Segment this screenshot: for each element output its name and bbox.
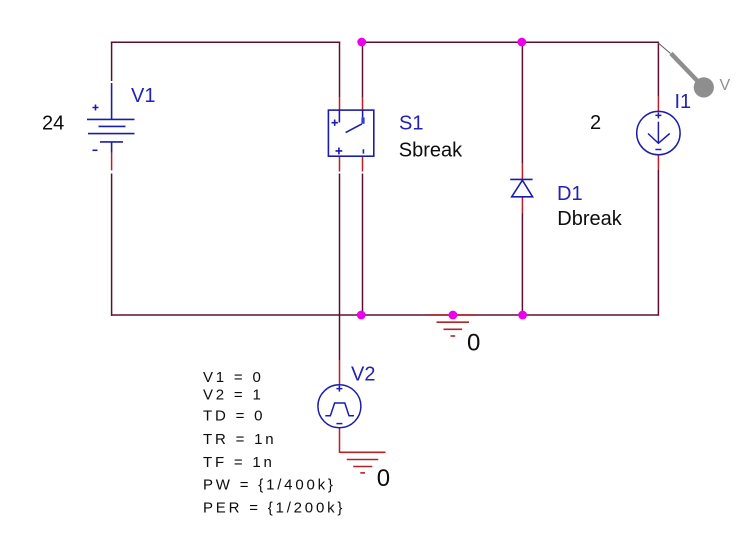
current source I1 — [637, 111, 680, 154]
wire S1 left branch upper (maroon part) — [339, 42, 341, 97]
svg-text:0: 0 — [467, 329, 480, 356]
svg-text:S1: S1 — [399, 112, 423, 134]
svg-text:TD = 0: TD = 0 — [203, 408, 265, 425]
svg-text:24: 24 — [42, 113, 64, 135]
wire V1 bottom vertical — [111, 174, 113, 316]
wire I1 branch lower (maroon) — [657, 170, 659, 316]
diode D1 — [510, 179, 532, 196]
wire I1 bottom pin stub (red) — [657, 155, 659, 170]
switch S1 — [328, 110, 373, 156]
wire D1 branch upper (maroon) — [521, 42, 523, 163]
svg-text:TR = 1n: TR = 1n — [203, 431, 276, 448]
wire I1 top pin stub (red) — [657, 96, 659, 111]
voltage probe marker — [658, 43, 714, 98]
wire V2 top pin stub (red) — [339, 360, 341, 385]
svg-text:V1 = 0: V1 = 0 — [203, 369, 264, 386]
svg-text:Dbreak: Dbreak — [557, 208, 622, 230]
svg-text:V1: V1 — [131, 85, 155, 107]
ground 0 (below V2) — [340, 452, 386, 473]
svg-text:I1: I1 — [675, 91, 692, 113]
svg-text:Sbreak: Sbreak — [399, 140, 463, 162]
wire S1 left lower pin stub (red) — [339, 156, 341, 171]
junction dot bottom rail at D1 branch — [518, 311, 527, 320]
switch S1 contact blob — [361, 117, 364, 123]
junction dot top rail at D1 branch — [517, 38, 526, 47]
V2 parameter list — [203, 369, 345, 517]
svg-text:D1: D1 — [557, 183, 583, 205]
wire V1 bottom pin stub (red) — [111, 153, 113, 171]
pulse source V2 — [318, 385, 361, 428]
wire top rail left segment — [111, 41, 340, 43]
svg-text:PER = {1/200k}: PER = {1/200k} — [203, 500, 345, 517]
battery V1 — [87, 83, 135, 153]
wire S1 right lower pin stub (red) — [362, 156, 364, 171]
junction dot top rail at S1 right branch — [357, 38, 366, 47]
wire I1 branch upper (maroon) — [657, 42, 659, 96]
svg-text:V2 = 1: V2 = 1 — [203, 387, 264, 404]
wire D1 branch lower (maroon) — [521, 214, 523, 316]
wire D1 bottom pin stub (red) — [521, 197, 523, 214]
svg-text:PW = {1/400k}: PW = {1/400k} — [203, 477, 336, 494]
wire V1 top vertical — [111, 42, 113, 81]
ground 0 (bottom rail) — [430, 315, 476, 336]
wire D1 top pin stub (red) — [521, 163, 523, 179]
wire S1 right branch lower (maroon to rail dot) — [362, 174, 364, 316]
junction dot bottom rail at S1 right branch — [357, 311, 366, 320]
svg-text:V: V — [720, 77, 731, 94]
svg-text:2: 2 — [590, 112, 601, 134]
wire top rail right segment — [362, 41, 659, 43]
wire S1 left branch lower (maroon, crosses rail, to V2) — [339, 174, 341, 361]
junction dot bottom rail at ground — [449, 311, 458, 320]
svg-text:0: 0 — [377, 465, 390, 492]
wire S1 left branch upper pin stub (red) — [339, 97, 341, 110]
svg-text:TF = 1n: TF = 1n — [203, 454, 275, 471]
wire S1 right branch upper (maroon) — [362, 42, 364, 97]
svg-text:V2: V2 — [351, 363, 375, 385]
wire V2 bottom to ground (red L) — [340, 428, 386, 453]
wire S1 right branch upper pin stub (red) — [362, 97, 364, 110]
wire bottom rail — [111, 314, 659, 316]
